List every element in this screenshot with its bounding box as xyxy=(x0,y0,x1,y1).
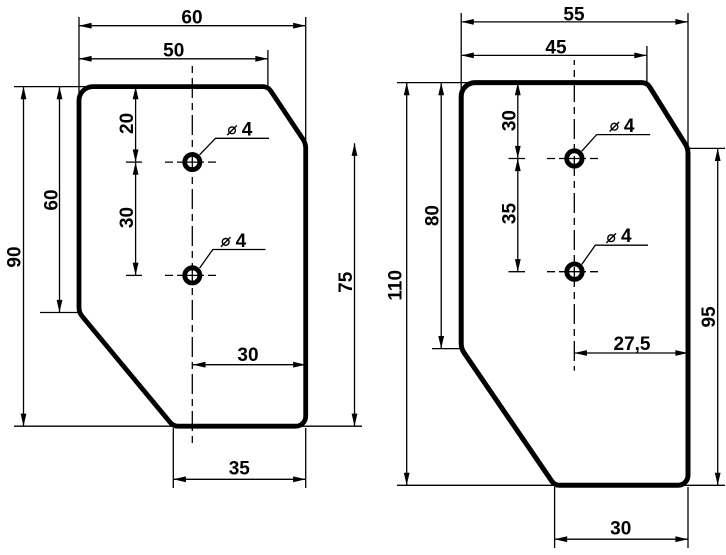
vertical centerline right plate xyxy=(573,60,575,371)
extension line 30 bottom left xyxy=(554,487,556,548)
arrow 35 rp bottom xyxy=(515,259,521,272)
arrow 30 bottom left xyxy=(555,536,568,542)
svg-text:60: 60 xyxy=(181,8,202,29)
arrow 60 top right xyxy=(293,23,306,29)
svg-text:110: 110 xyxy=(386,270,407,301)
arrow 75 top xyxy=(352,143,358,156)
svg-text:4: 4 xyxy=(236,231,247,252)
dia symbol hole1 left xyxy=(227,126,237,136)
horizontal centerline hole H1 xyxy=(165,161,216,163)
arrow 20 top xyxy=(133,87,139,100)
arrow 50 left xyxy=(79,56,92,62)
hole H1 left plate xyxy=(185,155,200,170)
hole H2 left plate xyxy=(185,268,200,283)
extension line hole2 level (35 dim) xyxy=(509,271,526,273)
svg-text:4: 4 xyxy=(624,116,635,137)
extension line top edge level right plate xyxy=(397,82,470,84)
dia symbol hole2 right xyxy=(606,233,616,243)
arrow 35 left xyxy=(173,476,186,482)
arrowheads right plate xyxy=(404,19,721,542)
dim line 95 xyxy=(717,148,719,485)
svg-text:90: 90 xyxy=(5,246,26,267)
arrow 20 bottom xyxy=(133,150,139,163)
leader hole1 left xyxy=(200,138,269,155)
leader hole1 right xyxy=(582,135,651,152)
dim line 20/30 xyxy=(135,87,137,276)
svg-text:95: 95 xyxy=(699,306,720,328)
arrow 110 top xyxy=(404,83,410,96)
extension line chamfer end level (95 dim) xyxy=(689,147,725,149)
arrow 80 top xyxy=(438,83,444,96)
dim line 60 left xyxy=(59,87,61,313)
extension line right (55 dim) xyxy=(687,13,689,148)
dim line 30/35 right plate xyxy=(517,83,519,272)
svg-text:60: 60 xyxy=(41,189,62,210)
extension line right (60 top dim) xyxy=(305,17,307,143)
hole H2 right plate xyxy=(567,264,582,279)
svg-text:20: 20 xyxy=(117,113,138,134)
arrow 30 right right xyxy=(293,362,306,368)
horizontal centerline hole H2 xyxy=(165,274,216,276)
arrow 35 rp top xyxy=(515,159,521,172)
extension line 30 bottom right xyxy=(687,487,689,548)
extension line chamfer start (50 dim) xyxy=(267,50,269,88)
arrow 110 bottom xyxy=(404,473,410,486)
dim line 30 right xyxy=(193,364,306,366)
dia symbol hole2 left xyxy=(221,237,231,247)
horizontal centerline hole H2 right xyxy=(547,271,599,273)
plate outline left xyxy=(79,87,306,427)
arrow 27,5 left xyxy=(574,350,587,356)
arrow 30 bottom right xyxy=(675,536,688,542)
svg-text:4: 4 xyxy=(621,226,632,247)
arrow 95 bottom xyxy=(715,473,721,486)
leader hole2 left xyxy=(200,250,266,269)
extension line 35 right xyxy=(305,428,307,488)
arrow 45 left xyxy=(461,53,474,59)
vertical centerline left plate xyxy=(191,66,193,445)
texts right plate xyxy=(386,4,721,539)
dim line 75 xyxy=(354,143,356,426)
extension line 35 left xyxy=(172,428,174,488)
svg-text:35: 35 xyxy=(499,203,520,225)
horizontal centerline hole H1 right xyxy=(547,158,599,160)
arrow 45 right xyxy=(634,53,647,59)
arrow 75 bottom xyxy=(352,414,358,427)
arrow 55 right xyxy=(675,19,688,25)
dim line 80 xyxy=(440,83,442,349)
dim line 27,5 xyxy=(574,352,688,354)
arrow 60 left bottom xyxy=(57,300,63,313)
svg-text:35: 35 xyxy=(229,459,251,480)
arrow 30 rp top xyxy=(515,83,521,96)
svg-text:55: 55 xyxy=(563,4,585,25)
svg-text:27,5: 27,5 xyxy=(614,334,651,355)
dim line 90 xyxy=(23,87,25,427)
dim line 50 xyxy=(79,58,268,60)
svg-text:30: 30 xyxy=(610,519,631,540)
arrow 90 top xyxy=(21,87,27,100)
leader hole2 right xyxy=(582,245,648,264)
svg-text:50: 50 xyxy=(163,41,184,62)
arrow 35 right xyxy=(293,476,306,482)
svg-text:80: 80 xyxy=(423,205,444,226)
extension line hole2 level (30 dim) xyxy=(126,274,142,276)
svg-text:45: 45 xyxy=(545,37,567,58)
svg-text:4: 4 xyxy=(242,120,253,141)
dim line 110 xyxy=(406,83,408,486)
extension line left edge top right plate xyxy=(460,13,462,92)
dim line 30 bottom xyxy=(555,538,688,540)
arrow 95 top xyxy=(715,148,721,161)
extension line bottom edge level xyxy=(14,425,362,427)
dia symbol hole1 right xyxy=(610,122,620,132)
extension line hole1 level (20/30 dims) xyxy=(126,161,142,163)
extension line hole1 level (30/35 dims) xyxy=(509,158,526,160)
svg-text:30: 30 xyxy=(499,110,520,131)
arrow 55 left xyxy=(461,19,474,25)
svg-text:30: 30 xyxy=(117,207,138,228)
extension line kink level (80 dim) xyxy=(432,348,461,350)
extension line bottom edge level right plate xyxy=(397,484,725,486)
arrow 90 bottom xyxy=(21,414,27,427)
extension line left edge top xyxy=(78,17,80,96)
extension line top edge level xyxy=(14,86,96,88)
arrowheads left plate xyxy=(21,23,358,482)
dim line 35 bottom xyxy=(173,478,305,480)
arrow 30 right left xyxy=(193,362,206,368)
plate outline right xyxy=(461,83,688,486)
dim line 60 top xyxy=(79,25,306,27)
extension line chamfer start (45 dim) xyxy=(646,46,648,84)
arrow 60 top left xyxy=(79,23,92,29)
arrow 80 bottom xyxy=(438,336,444,349)
arrow 30 mid top xyxy=(133,162,139,175)
arrow 50 right xyxy=(255,56,268,62)
arrow 27,5 right xyxy=(675,350,688,356)
arrow 60 left top xyxy=(57,87,63,100)
texts left plate xyxy=(5,8,358,480)
svg-text:75: 75 xyxy=(336,271,357,293)
dim line 45 xyxy=(461,54,647,56)
arrow 30 rp bottom xyxy=(515,146,521,159)
extension line kink level (60 left dim) xyxy=(40,312,79,314)
hole H1 right plate xyxy=(567,151,582,166)
dim line 55 xyxy=(461,21,688,23)
arrow 30 mid bottom xyxy=(133,263,139,276)
svg-text:30: 30 xyxy=(237,345,258,366)
